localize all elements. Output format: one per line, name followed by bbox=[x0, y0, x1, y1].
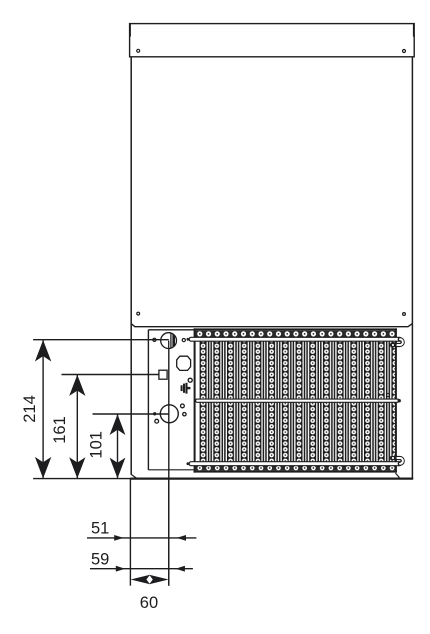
octagon cap bbox=[177, 356, 191, 370]
top bend circles strip bbox=[196, 330, 396, 337]
fittings panel bottom edge bbox=[148, 469, 396, 471]
bottom bend circles strip bbox=[196, 466, 396, 471]
dim line 51 bbox=[87, 537, 196, 539]
screw bottom-left bbox=[137, 312, 140, 315]
arrow 161 down bbox=[69, 457, 85, 478]
arrow 101 down bbox=[110, 458, 126, 479]
svg-text:51: 51 bbox=[91, 520, 109, 538]
arrow 60 left bbox=[131, 575, 150, 584]
screw bottom-right bbox=[403, 313, 406, 316]
middle tube bbox=[196, 399, 401, 402]
bottom tube bbox=[187, 462, 402, 466]
arrow 51 left bbox=[177, 535, 186, 541]
svg-text:161: 161 bbox=[51, 416, 69, 444]
fittings panel frame vertical bbox=[147, 330, 149, 470]
arrow 59 left bbox=[176, 566, 185, 572]
fittings centerline bbox=[168, 332, 170, 586]
arrow 101 up bbox=[110, 414, 126, 435]
dimensions bbox=[33, 340, 196, 586]
arrow 214 down bbox=[35, 457, 51, 479]
extension line 101 top bbox=[93, 413, 170, 415]
valve circle bbox=[161, 333, 177, 349]
square fitting bbox=[159, 370, 167, 379]
arrow 59 right bbox=[116, 566, 125, 572]
dim line 59 bbox=[90, 568, 193, 570]
small screw below octagon bbox=[188, 378, 192, 382]
extension vertical left (machine edge) bbox=[129, 479, 131, 586]
arrowheads bbox=[35, 340, 186, 584]
dim line 161 bbox=[76, 375, 78, 478]
top lid panel bbox=[130, 24, 415, 57]
drain fitting symbol bbox=[181, 383, 191, 394]
arrow 214 up bbox=[35, 340, 51, 362]
screw left of valve bbox=[153, 338, 156, 341]
coil top edge bbox=[194, 328, 397, 330]
cabinet body left edge bbox=[130, 57, 132, 475]
screw upper-right of port bbox=[181, 404, 185, 408]
svg-text:101: 101 bbox=[88, 431, 106, 459]
svg-text:214: 214 bbox=[21, 395, 39, 423]
bottom hairpin u-bend bbox=[392, 458, 403, 464]
screw lower-left of port bbox=[155, 419, 159, 423]
coil right end plate bbox=[395, 328, 397, 472]
arrow 51 right bbox=[114, 535, 123, 541]
coil bottom edge bbox=[194, 471, 397, 473]
lid corner tick left bbox=[129, 24, 131, 37]
lid corner tick right bbox=[413, 24, 415, 37]
extension line 214 top bbox=[33, 339, 169, 341]
top hairpin end dot bbox=[394, 344, 397, 347]
cabinet body right edge bbox=[411, 57, 413, 479]
fittings panel top edge bbox=[148, 329, 194, 331]
arrow 161 up bbox=[69, 375, 85, 396]
screw top-right bbox=[403, 50, 406, 53]
cabinet body bottom edge with chamfers bbox=[131, 324, 412, 327]
bottom-left chamfer bbox=[131, 474, 136, 478]
machine bottom edge bbox=[130, 478, 413, 480]
dimension baseline bottom bbox=[33, 478, 131, 480]
screw top-left bbox=[137, 49, 140, 52]
bottom-right foot chamfer bbox=[395, 473, 399, 478]
lower port circle bbox=[160, 405, 178, 423]
extension vertical centerline bbox=[168, 479, 170, 586]
top hairpin u-bend bbox=[392, 339, 403, 345]
extension line 161 top bbox=[62, 374, 159, 376]
dot on leader bbox=[153, 412, 156, 415]
fin field bbox=[199, 341, 395, 461]
coil left end plate bbox=[194, 328, 196, 472]
screw right of valve bbox=[182, 339, 185, 342]
dim line 101 bbox=[117, 415, 119, 479]
bottom hairpin end dot bbox=[394, 457, 397, 460]
svg-text:60: 60 bbox=[140, 594, 158, 612]
screw right of port bbox=[183, 413, 186, 416]
condenser coil bbox=[187, 328, 403, 472]
dim line 214 bbox=[42, 340, 44, 478]
coil screw circle bbox=[387, 394, 390, 397]
dimension texts bbox=[21, 395, 158, 612]
fittings bbox=[153, 332, 192, 586]
svg-text:59: 59 bbox=[91, 550, 109, 568]
arrow 60 right bbox=[149, 575, 168, 584]
top tube bbox=[187, 337, 402, 341]
